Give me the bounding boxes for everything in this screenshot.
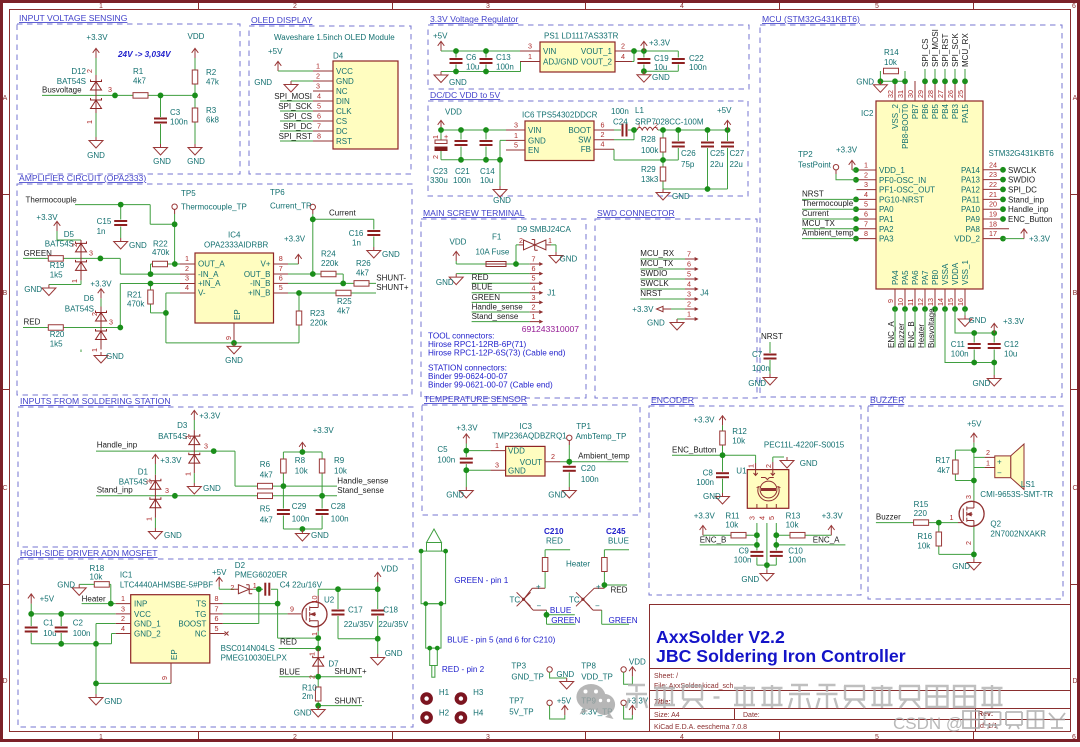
svg-text:4: 4 xyxy=(185,283,189,292)
svg-text:BUZZER: BUZZER xyxy=(870,395,904,405)
svg-text:TP5: TP5 xyxy=(181,189,196,198)
svg-text:C7: C7 xyxy=(752,350,763,359)
svg-text:1: 1 xyxy=(316,62,320,71)
junction dots xyxy=(118,202,124,208)
svg-text:TestPoint: TestPoint xyxy=(798,161,832,170)
svg-text:1: 1 xyxy=(99,3,103,10)
svg-text:GND: GND xyxy=(703,492,721,501)
IC IC3 xyxy=(506,446,545,476)
svg-text:+5V: +5V xyxy=(212,568,227,577)
svg-text:BLUE - pin 5 (and 6 for C210): BLUE - pin 5 (and 6 for C210) xyxy=(447,635,556,644)
svg-text:R16: R16 xyxy=(917,532,932,541)
capacitor C28 xyxy=(315,509,329,516)
svg-text:1: 1 xyxy=(528,52,532,61)
fake CJK watermark text xyxy=(626,685,1003,708)
svg-text:Thermocouple: Thermocouple xyxy=(26,196,78,205)
svg-text:+5V: +5V xyxy=(268,47,283,56)
svg-text:5: 5 xyxy=(532,274,536,283)
svg-text:VOUT: VOUT xyxy=(520,458,542,467)
svg-text:2: 2 xyxy=(964,541,973,545)
svg-text:ENC_B: ENC_B xyxy=(700,535,727,544)
svg-text:100n: 100n xyxy=(73,629,91,638)
svg-text:GND: GND xyxy=(548,491,566,500)
capacitor C20 xyxy=(562,465,576,472)
resistor R11 xyxy=(731,532,746,538)
svg-text:GND: GND xyxy=(969,316,987,325)
power +3.3V D6 xyxy=(98,289,105,299)
resistor R23 xyxy=(296,311,302,325)
svg-text:C4 22u/16V: C4 22u/16V xyxy=(280,581,323,590)
svg-text:GND_2: GND_2 xyxy=(134,630,161,639)
svg-text:Buzzer: Buzzer xyxy=(876,513,901,522)
svg-text:Handle_inp: Handle_inp xyxy=(1008,205,1049,214)
power +3.3V xyxy=(463,434,470,444)
svg-text:4: 4 xyxy=(601,140,605,149)
svg-text:VIN: VIN xyxy=(543,47,557,56)
svg-text:6: 6 xyxy=(1072,734,1076,741)
wechat logo xyxy=(576,684,615,719)
capacitor C16 xyxy=(367,230,381,237)
svg-text:C10: C10 xyxy=(788,547,803,556)
svg-text:A: A xyxy=(1073,95,1078,102)
svg-text:27: 27 xyxy=(936,90,945,98)
connector J1 xyxy=(530,264,540,322)
svg-text:J4: J4 xyxy=(700,289,709,298)
capacitor C1 xyxy=(24,626,38,633)
resistor R2 xyxy=(192,70,198,84)
diode D6 BAT54S xyxy=(100,307,102,350)
labels top xyxy=(921,29,970,67)
svg-text:10u: 10u xyxy=(654,63,667,72)
svg-text:TP8: TP8 xyxy=(581,662,596,671)
ground xyxy=(656,189,670,200)
svg-text:EP: EP xyxy=(170,649,179,660)
svg-text:GND: GND xyxy=(748,379,766,388)
iron tip drawing xyxy=(421,529,446,677)
svg-text:TEMPERATURE SENSOR: TEMPERATURE SENSOR xyxy=(424,394,527,404)
right pins 24..17 xyxy=(983,170,1009,239)
svg-text:7: 7 xyxy=(279,264,283,273)
capacitor C11 xyxy=(967,343,981,350)
svg-text:1: 1 xyxy=(85,120,94,124)
svg-text:10u: 10u xyxy=(466,63,479,72)
svg-text:GND: GND xyxy=(508,466,526,475)
svg-text:GND: GND xyxy=(436,278,454,287)
capacitor C5 xyxy=(459,457,473,464)
resistor R28 xyxy=(660,138,666,152)
svg-text:R28: R28 xyxy=(641,135,656,144)
power +3.3V D3 xyxy=(191,410,198,420)
IC IC1 xyxy=(131,595,210,663)
svg-text:C21: C21 xyxy=(455,167,470,176)
capacitor C8 xyxy=(716,472,730,479)
svg-text:1: 1 xyxy=(514,131,518,140)
svg-text:2: 2 xyxy=(184,436,193,440)
svg-text:PA1: PA1 xyxy=(879,215,894,224)
svg-text:D: D xyxy=(2,678,7,685)
svg-text:2: 2 xyxy=(431,155,440,159)
svg-text:VDD: VDD xyxy=(188,32,205,41)
svg-text:29: 29 xyxy=(916,90,925,98)
svg-text:GND: GND xyxy=(856,78,874,87)
svg-text:EN: EN xyxy=(528,146,539,155)
svg-text:R17: R17 xyxy=(935,456,950,465)
svg-text:1: 1 xyxy=(986,459,990,468)
svg-text:Thermocouple: Thermocouple xyxy=(802,199,854,208)
svg-text:PA9: PA9 xyxy=(965,215,980,224)
svg-text:R2: R2 xyxy=(206,68,217,77)
svg-text:C25: C25 xyxy=(710,149,725,158)
svg-text:BOOST: BOOST xyxy=(178,620,206,629)
connector J4 xyxy=(685,259,695,319)
svg-text:Date:: Date: xyxy=(743,712,760,719)
svg-text:PA13: PA13 xyxy=(961,176,981,185)
ground C8 xyxy=(716,493,730,504)
svg-text:GND: GND xyxy=(973,379,991,388)
svg-text:LTC4440AHMSBE-5#PBF: LTC4440AHMSBE-5#PBF xyxy=(120,581,213,590)
ground pin2 xyxy=(284,81,298,92)
svg-text:VSS_2: VSS_2 xyxy=(891,103,900,128)
ground D12 xyxy=(89,137,103,148)
ground C3 xyxy=(154,144,168,155)
svg-text:12: 12 xyxy=(916,298,925,306)
svg-text:1k5: 1k5 xyxy=(50,271,63,280)
svg-text:5: 5 xyxy=(215,624,219,633)
svg-text:Thermocouple_TP: Thermocouple_TP xyxy=(181,203,247,212)
svg-text:PA5: PA5 xyxy=(901,270,910,285)
IC D4 xyxy=(333,61,398,149)
svg-text:21: 21 xyxy=(989,190,997,199)
svg-text:SRP7028CC-100M: SRP7028CC-100M xyxy=(635,118,704,127)
svg-text:4k7: 4k7 xyxy=(260,471,273,480)
svg-text:2: 2 xyxy=(316,72,320,81)
power +5V xyxy=(724,120,731,130)
svg-text:4: 4 xyxy=(317,92,321,101)
capacitor C15 xyxy=(114,220,128,227)
wires xyxy=(456,245,556,322)
svg-text:100n: 100n xyxy=(752,364,770,373)
power +3.3V pin1 xyxy=(852,169,856,171)
svg-text:220k: 220k xyxy=(310,319,328,328)
svg-text:BOOT: BOOT xyxy=(568,126,591,135)
svg-text:Busvoltage: Busvoltage xyxy=(927,308,936,348)
svg-text:32: 32 xyxy=(886,90,895,98)
svg-text:6: 6 xyxy=(601,121,605,130)
svg-text:2: 2 xyxy=(864,170,868,179)
svg-text:1: 1 xyxy=(495,441,499,450)
svg-text:220: 220 xyxy=(914,509,928,518)
diode D9 TVS xyxy=(519,240,551,251)
svg-text:H3: H3 xyxy=(473,688,484,697)
svg-text:5: 5 xyxy=(864,200,868,209)
resistor R5 xyxy=(258,493,273,499)
svg-text:SPI_MOSI: SPI_MOSI xyxy=(931,29,940,67)
power +3.3V V+ xyxy=(295,254,302,264)
svg-text:V-: V- xyxy=(198,289,206,298)
capacitor C2 xyxy=(54,626,68,633)
pins xyxy=(313,71,333,141)
svg-text:330u: 330u xyxy=(430,176,448,185)
svg-text:4: 4 xyxy=(864,190,868,199)
power +5V D2 xyxy=(216,577,223,587)
svg-text:100n: 100n xyxy=(453,176,471,185)
resistor R22 xyxy=(153,261,168,267)
speaker LS1 xyxy=(985,457,995,467)
svg-text:+3.3V: +3.3V xyxy=(822,512,844,521)
svg-text:R1: R1 xyxy=(133,67,144,76)
svg-text:V+: V+ xyxy=(260,260,270,269)
svg-text:9: 9 xyxy=(160,676,169,680)
resistor R24 xyxy=(321,271,336,277)
capacitor C26 xyxy=(671,141,685,148)
svg-text:+IN_A: +IN_A xyxy=(198,279,221,288)
svg-text:1: 1 xyxy=(121,594,125,603)
svg-text:C210: C210 xyxy=(544,527,564,536)
svg-text:4: 4 xyxy=(758,516,767,520)
capacitor C6 xyxy=(449,58,463,65)
svg-text:100n: 100n xyxy=(170,118,188,127)
svg-text:10k: 10k xyxy=(884,58,898,67)
svg-text:R19: R19 xyxy=(50,261,65,270)
svg-text:C26: C26 xyxy=(681,149,696,158)
svg-text:AxxSolder V2.2: AxxSolder V2.2 xyxy=(656,627,785,647)
svg-text:1n: 1n xyxy=(352,239,361,248)
svg-text:30: 30 xyxy=(906,90,915,98)
svg-text:D2: D2 xyxy=(235,561,246,570)
resistor R26 xyxy=(354,281,369,287)
svg-text:Handle_sense: Handle_sense xyxy=(337,476,389,485)
svg-text:INP: INP xyxy=(134,600,147,609)
resistor R14 xyxy=(884,68,899,74)
svg-text:31: 31 xyxy=(896,90,905,98)
svg-text:5: 5 xyxy=(279,283,283,292)
ground D1 xyxy=(148,528,162,539)
power +3.3V R12 xyxy=(719,416,726,426)
svg-text:R23: R23 xyxy=(310,309,325,318)
svg-text:2: 2 xyxy=(185,264,189,273)
svg-text:4k7: 4k7 xyxy=(937,466,950,475)
svg-text:−: − xyxy=(537,602,542,611)
ground xyxy=(434,72,448,83)
svg-text:6: 6 xyxy=(279,274,283,283)
svg-text:PA14: PA14 xyxy=(961,166,981,175)
svg-text:GND: GND xyxy=(164,531,182,540)
svg-text:4: 4 xyxy=(121,624,125,633)
svg-text:D5: D5 xyxy=(64,230,75,239)
svg-text:16: 16 xyxy=(956,298,965,306)
svg-text:Sheet: /: Sheet: / xyxy=(654,673,678,680)
svg-text:GREEN: GREEN xyxy=(609,616,638,625)
svg-text:2: 2 xyxy=(532,303,536,312)
svg-text:C14: C14 xyxy=(480,167,495,176)
svg-text:C: C xyxy=(1072,485,1077,492)
svg-text:C24: C24 xyxy=(613,118,628,127)
svg-text:22u/35V: 22u/35V xyxy=(378,620,408,629)
svg-text:IC3: IC3 xyxy=(520,422,533,431)
capacitor C29 xyxy=(276,509,290,516)
svg-text:22u: 22u xyxy=(730,160,743,169)
svg-text:PB4: PB4 xyxy=(941,103,950,119)
resistor R15 xyxy=(914,520,929,526)
svg-text:TP7: TP7 xyxy=(509,697,524,706)
svg-text:RED: RED xyxy=(546,537,563,546)
ground rail xyxy=(300,526,306,532)
svg-text:PA10: PA10 xyxy=(961,205,981,214)
wires VSSA VDDA xyxy=(945,309,994,375)
svg-text:3: 3 xyxy=(495,461,499,470)
svg-text:EP: EP xyxy=(233,309,242,320)
wires bottom labels xyxy=(895,309,935,348)
svg-text:L1: L1 xyxy=(635,106,644,115)
svg-text:3: 3 xyxy=(486,734,490,741)
labels right xyxy=(1008,166,1052,224)
svg-text:R24: R24 xyxy=(321,250,336,259)
power +3.3V D5 xyxy=(54,221,61,231)
svg-text:OUT_A: OUT_A xyxy=(198,260,225,269)
svg-text:KiCad E.D.A. eeschema 7.0.8: KiCad E.D.A. eeschema 7.0.8 xyxy=(654,724,747,731)
svg-text:1: 1 xyxy=(747,464,756,468)
svg-text:Hirose RPC1-12P-6S(73) (Cable: Hirose RPC1-12P-6S(73) (Cable end) xyxy=(428,349,566,358)
svg-text:2: 2 xyxy=(145,480,154,484)
svg-text:H2: H2 xyxy=(439,709,450,718)
svg-text:ENCODER: ENCODER xyxy=(651,395,694,405)
svg-text:MCU_RX: MCU_RX xyxy=(640,249,674,258)
svg-text:VDD: VDD xyxy=(450,238,467,247)
svg-text:SWD CONNECTOR: SWD CONNECTOR xyxy=(597,208,675,218)
svg-text:RED: RED xyxy=(24,318,41,327)
svg-text:OLED DISPLAY: OLED DISPLAY xyxy=(251,15,313,25)
power +5V xyxy=(438,41,445,51)
svg-text:SHUNT+: SHUNT+ xyxy=(334,667,367,676)
svg-text:+3.3V: +3.3V xyxy=(284,235,306,244)
svg-text:22u: 22u xyxy=(710,160,723,169)
svg-text:+: + xyxy=(997,458,1002,467)
resistor R8 xyxy=(281,459,287,473)
resistor R10 xyxy=(315,687,321,701)
svg-text:SPI_SCK: SPI_SCK xyxy=(951,33,960,67)
svg-text:Heater: Heater xyxy=(917,324,926,348)
svg-text:PA6: PA6 xyxy=(911,270,920,285)
svg-text:5: 5 xyxy=(317,102,321,111)
svg-text:Handle_inp: Handle_inp xyxy=(97,441,138,450)
svg-text:Stand_sense: Stand_sense xyxy=(337,486,384,495)
svg-text:220k: 220k xyxy=(321,259,339,268)
svg-text:2m: 2m xyxy=(302,692,313,701)
svg-text:GND: GND xyxy=(311,531,329,540)
svg-text:3: 3 xyxy=(528,42,532,51)
svg-text:+3.3V: +3.3V xyxy=(36,213,58,222)
svg-text:C3: C3 xyxy=(170,108,181,117)
labels left xyxy=(802,189,854,237)
svg-text:2: 2 xyxy=(293,3,297,10)
svg-text:14: 14 xyxy=(936,298,945,306)
svg-text:+3.3V: +3.3V xyxy=(90,280,112,289)
svg-text:C11: C11 xyxy=(951,340,966,349)
svg-text:2: 2 xyxy=(687,300,691,309)
svg-text:C28: C28 xyxy=(331,502,346,511)
svg-text:GND: GND xyxy=(87,151,105,160)
svg-text:3: 3 xyxy=(532,293,536,302)
svg-text:A: A xyxy=(3,95,8,102)
svg-text:47k: 47k xyxy=(206,78,220,87)
svg-text:10k: 10k xyxy=(732,437,746,446)
svg-text:MCU_TX: MCU_TX xyxy=(640,259,674,268)
ground D9 xyxy=(549,252,563,263)
svg-text:GND: GND xyxy=(952,562,970,571)
svg-text:10k: 10k xyxy=(90,573,104,582)
svg-text:10: 10 xyxy=(896,298,905,306)
svg-text:10u: 10u xyxy=(480,176,493,185)
svg-text:SW: SW xyxy=(578,136,591,145)
svg-text:+5V: +5V xyxy=(967,420,982,429)
svg-text:PF1-OSC_OUT: PF1-OSC_OUT xyxy=(879,186,935,195)
resistor R20 xyxy=(48,325,63,331)
top pins 32..25 xyxy=(895,81,965,101)
resistor R21 xyxy=(148,290,154,304)
resistor R6 xyxy=(258,483,273,489)
svg-text:6: 6 xyxy=(215,614,219,623)
mounting holes H1-H4 xyxy=(420,692,467,724)
inductor L1 xyxy=(637,127,658,130)
wires xyxy=(278,71,313,141)
power +3.3V pin17 xyxy=(1003,238,1024,240)
resistor R13 xyxy=(790,532,805,538)
svg-text:PF0-OSC_IN: PF0-OSC_IN xyxy=(879,176,926,185)
svg-text:100n: 100n xyxy=(611,107,629,116)
svg-text:GND: GND xyxy=(153,157,171,166)
svg-text:+3.3V: +3.3V xyxy=(1003,317,1025,326)
svg-text:PA15: PA15 xyxy=(961,103,970,123)
svg-text:SWCLK: SWCLK xyxy=(1008,166,1037,175)
power +5V xyxy=(971,433,978,443)
svg-text:13: 13 xyxy=(926,298,935,306)
svg-text:C: C xyxy=(2,485,7,492)
power +5V xyxy=(28,594,35,604)
diode D5 BAT54S xyxy=(80,240,82,280)
svg-text:FB: FB xyxy=(581,145,591,154)
wire gnd/boot xyxy=(880,69,965,81)
svg-text:3: 3 xyxy=(748,516,757,520)
svg-text:100n: 100n xyxy=(331,515,349,524)
svg-text:C16: C16 xyxy=(349,229,364,238)
svg-text:8: 8 xyxy=(279,254,283,263)
svg-text:PA3: PA3 xyxy=(879,235,894,244)
diode D7 xyxy=(317,649,319,677)
svg-text:3: 3 xyxy=(316,82,320,91)
svg-text:DC/DC VDD to 5V: DC/DC VDD to 5V xyxy=(430,90,500,100)
svg-text:3: 3 xyxy=(864,180,868,189)
svg-text:PA0: PA0 xyxy=(879,205,894,214)
wires xyxy=(441,130,728,189)
svg-text:4: 4 xyxy=(687,280,691,289)
svg-text:C19: C19 xyxy=(654,54,669,63)
svg-text:Ambient_temp: Ambient_temp xyxy=(578,452,630,461)
svg-text:4k7: 4k7 xyxy=(133,77,146,86)
svg-text:Current: Current xyxy=(329,209,356,218)
svg-text:SPI_DC: SPI_DC xyxy=(283,122,312,131)
power +3.3V xyxy=(93,48,100,58)
svg-text:GND: GND xyxy=(104,697,122,706)
svg-text:SPI_RST: SPI_RST xyxy=(279,132,312,141)
svg-text:SWCLK: SWCLK xyxy=(640,279,669,288)
wires xyxy=(672,425,845,570)
svg-text:Current: Current xyxy=(802,209,829,218)
svg-text:4: 4 xyxy=(621,52,625,61)
svg-text:GND: GND xyxy=(449,78,467,87)
resistor R12 xyxy=(720,431,726,445)
svg-text:RED - pin 2: RED - pin 2 xyxy=(442,665,485,674)
svg-text:Size: A4: Size: A4 xyxy=(654,712,680,719)
